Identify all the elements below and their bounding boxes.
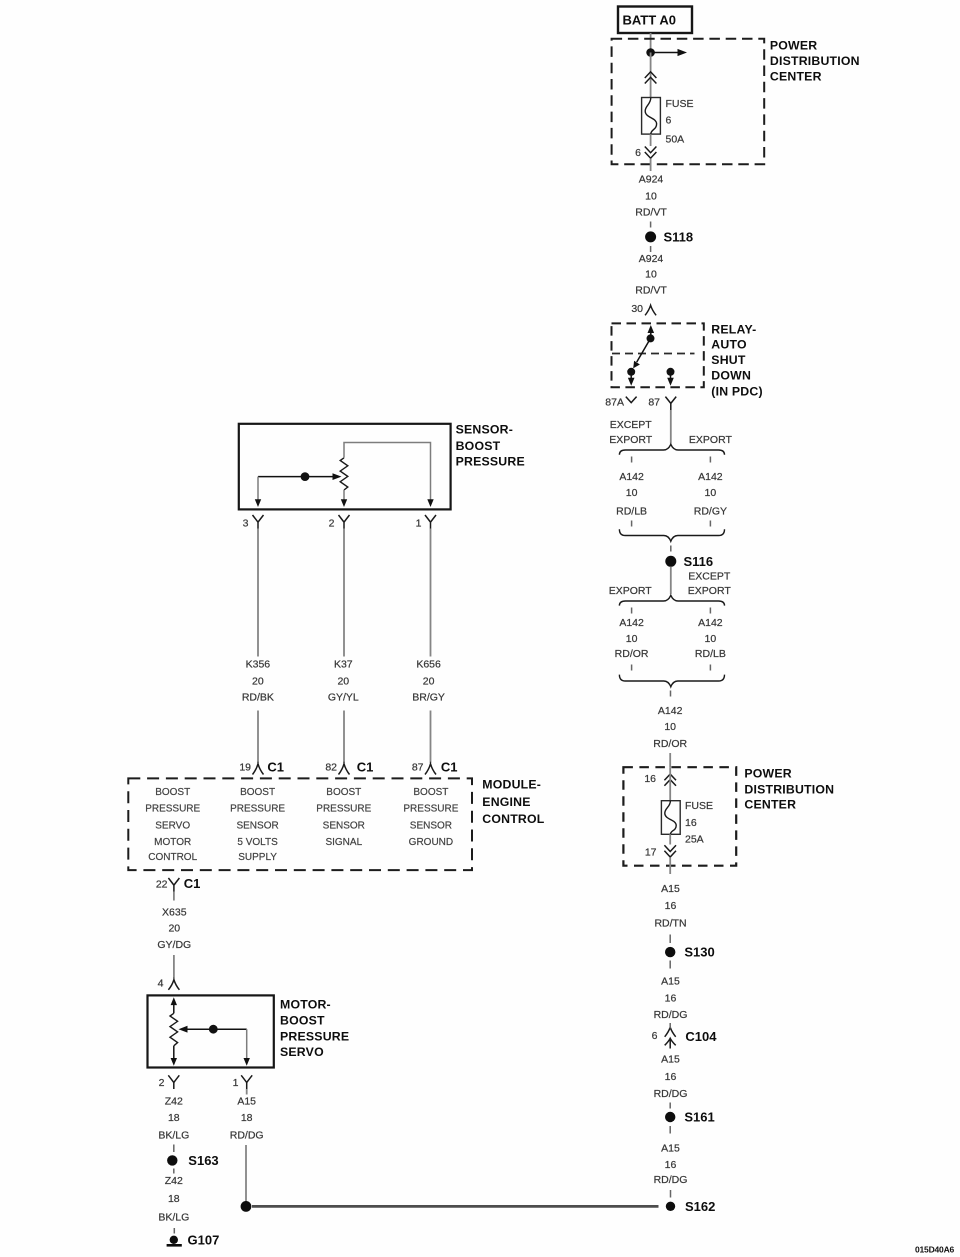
svg-text:2: 2	[329, 518, 335, 530]
pin 3 arrow inside box	[255, 499, 261, 507]
svg-text:BOOST: BOOST	[280, 1014, 325, 1028]
label SENSOR-BOOST PRESSURE	[456, 422, 525, 468]
connector at pin 30 (legs down)	[645, 305, 656, 315]
svg-text:SIGNAL: SIGNAL	[325, 837, 362, 848]
brace split 1 top	[619, 444, 724, 455]
motor boost pressure servo box	[148, 995, 274, 1067]
servo winding arrow down to pin 2	[171, 1046, 177, 1066]
svg-text:SERVO: SERVO	[280, 1045, 324, 1059]
svg-text:MOTOR-: MOTOR-	[280, 997, 331, 1011]
wire label A142 10 RD/OR (trunk)	[653, 705, 687, 750]
svg-text:A924: A924	[639, 253, 664, 265]
svg-text:4: 4	[158, 978, 164, 990]
wire label Z42 18 BK/LG (upper)	[158, 1096, 189, 1142]
net option label EXCEPT EXPORT (left, split 1)	[609, 419, 653, 446]
svg-text:Z42: Z42	[165, 1175, 183, 1187]
svg-text:BK/LG: BK/LG	[158, 1211, 189, 1223]
svg-text:A142: A142	[698, 471, 723, 483]
svg-text:1: 1	[233, 1077, 239, 1089]
wire label A15 16 RD/DG (above C104)	[654, 975, 688, 1021]
wire pin16 to fuse 16	[669, 767, 671, 801]
svg-text:K356: K356	[246, 658, 271, 670]
connector chevron (double, down)	[645, 147, 657, 159]
svg-text:FUSE: FUSE	[666, 98, 694, 110]
connector chevron (double, up)	[645, 72, 657, 84]
svg-text:A142: A142	[619, 471, 644, 483]
svg-text:RD/DG: RD/DG	[230, 1130, 264, 1142]
motor winding R (servo)	[170, 1013, 178, 1046]
svg-text:A15: A15	[661, 1143, 680, 1155]
svg-text:2: 2	[159, 1077, 165, 1089]
svg-text:PRESSURE: PRESSURE	[403, 804, 458, 815]
connector C1 at pin 87 (legs down)	[425, 764, 436, 775]
fuse value labels FUSE 16 25A	[685, 800, 713, 846]
svg-text:EXPORT: EXPORT	[688, 585, 732, 597]
potentiometer R (sensor)	[340, 458, 348, 490]
svg-text:RD/BK: RD/BK	[242, 692, 274, 704]
relay box (dashed)	[612, 323, 704, 387]
svg-text:EXCEPT: EXCEPT	[688, 571, 731, 583]
wire 87 down to split	[670, 410, 672, 444]
svg-text:50A: 50A	[666, 134, 685, 146]
svg-text:10: 10	[705, 487, 717, 499]
svg-text:3: 3	[243, 518, 249, 530]
connector chevron 17 (double, down)	[664, 845, 676, 857]
svg-text:C1: C1	[441, 759, 458, 774]
svg-text:G107: G107	[188, 1232, 220, 1247]
svg-text:18: 18	[168, 1112, 180, 1124]
label POWER DISTRIBUTION CENTER (bottom)	[744, 767, 834, 812]
module pin function: BOOST PRESSURE SERVO MOTOR CONTROL	[145, 787, 200, 863]
wire sensor pin 2 down	[343, 529, 345, 657]
svg-text:10: 10	[664, 721, 676, 733]
svg-text:16: 16	[665, 900, 677, 912]
wire label A15 16 RD/DG (below C104)	[654, 1054, 688, 1101]
wiper junction node	[301, 472, 310, 481]
brace merge 1 bottom	[619, 529, 724, 541]
label POWER DISTRIBUTION CENTER (top)	[770, 39, 860, 84]
connector at sensor pin 1 (Y)	[425, 515, 436, 529]
wire fuse16 out of box	[669, 834, 671, 844]
svg-text:S162: S162	[685, 1199, 715, 1214]
svg-text:SENSOR: SENSOR	[410, 821, 452, 832]
svg-text:87A: 87A	[605, 396, 624, 408]
svg-text:SHUT: SHUT	[711, 353, 746, 367]
svg-text:RD/TN: RD/TN	[654, 917, 686, 929]
svg-text:RD/DG: RD/DG	[654, 1088, 688, 1100]
svg-text:CONTROL: CONTROL	[482, 812, 544, 826]
svg-text:015D40A6: 015D40A6	[915, 1244, 955, 1254]
wire to module pin 87	[430, 711, 432, 764]
svg-text:CENTER: CENTER	[770, 70, 822, 84]
svg-text:16: 16	[665, 1159, 677, 1171]
svg-text:CENTER: CENTER	[744, 797, 796, 811]
servo winding arrow up to pin 4	[171, 997, 177, 1013]
wire label A15 18 RD/DG (servo pin 1)	[230, 1096, 264, 1142]
wire label K656 20 BR/GY	[412, 658, 445, 703]
fuse F6 body	[642, 98, 661, 135]
pin 2 arrow inside box	[341, 499, 347, 507]
wire stub right branch 2 top	[709, 608, 711, 614]
relay armature node 30	[647, 334, 655, 342]
arrow feed to other circuits	[651, 49, 687, 56]
svg-text:BR/GY: BR/GY	[412, 692, 445, 704]
svg-text:18: 18	[168, 1193, 180, 1205]
svg-text:16: 16	[685, 817, 697, 829]
svg-text:EXPORT: EXPORT	[609, 434, 653, 446]
wire stub above S118	[650, 222, 652, 228]
svg-text:S116: S116	[684, 554, 714, 569]
wire label A142 10 RD/LB (right branch 2)	[695, 617, 726, 660]
junction node in PDC	[646, 48, 655, 57]
wire stub below merge 2	[670, 691, 672, 697]
svg-text:MODULE-: MODULE-	[482, 778, 541, 792]
connector at servo pin 4 (legs down)	[168, 980, 179, 990]
wire label A142 10 RD/OR (left branch 2)	[615, 617, 649, 660]
svg-text:GY/YL: GY/YL	[328, 692, 359, 704]
wire stub left branch top	[631, 457, 633, 463]
label RELAY-AUTO SHUT DOWN (IN PDC)	[711, 323, 762, 399]
svg-text:BOOST: BOOST	[456, 439, 501, 453]
svg-text:30: 30	[631, 303, 643, 315]
svg-text:BATT A0: BATT A0	[623, 13, 676, 28]
fuse value labels FUSE 6 50A	[666, 98, 694, 146]
svg-text:RD/OR: RD/OR	[653, 738, 687, 750]
wire S162 to servo branch (horizontal)	[252, 1205, 659, 1208]
connector at servo pin 1 (Y)	[241, 1075, 252, 1089]
power distribution center box 1	[612, 39, 765, 164]
splice S130	[665, 945, 715, 960]
svg-text:BK/LG: BK/LG	[158, 1130, 189, 1142]
svg-text:DISTRIBUTION: DISTRIBUTION	[744, 783, 834, 797]
svg-text:6: 6	[652, 1030, 658, 1042]
relay 87 arrow down	[667, 372, 674, 386]
connector BATT A0	[618, 7, 692, 34]
wire junction to fuse 6	[650, 53, 652, 98]
relay contact node 87A	[627, 368, 635, 376]
svg-text:X635: X635	[162, 906, 187, 918]
svg-text:6: 6	[635, 147, 641, 159]
ground G107	[167, 1232, 220, 1247]
wire stub right branch bottom	[709, 521, 711, 527]
module pin function: BOOST PRESSURE SENSOR GROUND	[403, 787, 458, 848]
wire stub below S163	[173, 1169, 175, 1174]
module pin function: BOOST PRESSURE SENSOR 5 VOLTS SUPPLY	[230, 787, 285, 863]
svg-text:SENSOR: SENSOR	[323, 821, 365, 832]
wire to module pin 19	[257, 711, 259, 764]
connector C1 at pin 82 (legs down)	[339, 764, 350, 775]
svg-text:20: 20	[337, 675, 349, 687]
splice S161	[665, 1110, 715, 1125]
wire sensor pin 1 down	[430, 529, 432, 657]
svg-text:EXCEPT: EXCEPT	[610, 419, 653, 431]
svg-text:PRESSURE: PRESSURE	[280, 1030, 349, 1044]
connector at 87 (Y)	[665, 397, 676, 410]
connector at sensor pin 2 (Y)	[339, 515, 350, 529]
svg-text:RD/DG: RD/DG	[654, 1174, 688, 1186]
wire servo pin 1 down to junction	[245, 1145, 247, 1204]
wire wiper to pin 3	[257, 477, 259, 500]
module engine control box (dashed)	[128, 778, 472, 870]
svg-text:C1: C1	[357, 759, 374, 774]
svg-text:16: 16	[644, 773, 656, 785]
svg-text:POWER: POWER	[770, 39, 817, 53]
svg-text:A142: A142	[658, 705, 683, 717]
relay 87A arrow down	[628, 372, 635, 386]
svg-text:SENSOR-: SENSOR-	[456, 422, 513, 436]
wire stub below S130	[669, 961, 671, 969]
svg-text:18: 18	[241, 1112, 253, 1124]
svg-text:5 VOLTS: 5 VOLTS	[237, 837, 278, 848]
power distribution center box 2	[623, 767, 736, 866]
wire stub above S162	[670, 1190, 672, 1198]
svg-text:RD/GY: RD/GY	[694, 505, 727, 517]
svg-text:DOWN: DOWN	[711, 368, 751, 382]
svg-text:22: 22	[156, 879, 168, 891]
splice S162	[666, 1199, 716, 1214]
junction node to S162	[241, 1201, 252, 1212]
svg-text:SUPPLY: SUPPLY	[238, 852, 277, 863]
svg-text:EXPORT: EXPORT	[689, 434, 733, 446]
splice S118	[645, 229, 693, 244]
svg-text:20: 20	[252, 675, 264, 687]
relay pin 30 arrow up	[648, 325, 655, 338]
svg-text:PRESSURE: PRESSURE	[456, 455, 525, 469]
svg-text:SERVO: SERVO	[155, 821, 190, 832]
module pin function: BOOST PRESSURE SENSOR SIGNAL	[316, 787, 371, 848]
svg-text:Z42: Z42	[165, 1096, 183, 1108]
svg-text:CONTROL: CONTROL	[148, 852, 197, 863]
svg-text:(IN PDC): (IN PDC)	[711, 384, 762, 398]
svg-text:10: 10	[626, 633, 638, 645]
svg-text:16: 16	[665, 1071, 677, 1083]
svg-text:RD/VT: RD/VT	[635, 206, 667, 218]
svg-text:BOOST: BOOST	[326, 787, 361, 798]
svg-text:A15: A15	[237, 1096, 256, 1108]
wire to module pin 82	[343, 711, 345, 764]
connector at sensor pin 3 (Y)	[253, 515, 264, 529]
svg-text:17: 17	[645, 847, 657, 859]
fuse F16 body	[661, 801, 680, 835]
in-line connector C104	[665, 1027, 718, 1048]
svg-text:16: 16	[665, 993, 677, 1005]
svg-text:RELAY-: RELAY-	[711, 323, 756, 337]
svg-text:MOTOR: MOTOR	[154, 837, 191, 848]
svg-text:RD/VT: RD/VT	[635, 285, 667, 297]
servo pin 1 arrow inside box	[244, 1058, 250, 1066]
wire stub left branch bottom	[631, 521, 633, 527]
svg-text:A15: A15	[661, 883, 680, 895]
label MOTOR-BOOST PRESSURE SERVO	[280, 997, 349, 1059]
wire label K356 20 RD/BK	[242, 658, 274, 703]
relay armature to 87A	[633, 338, 650, 368]
svg-text:EXPORT: EXPORT	[609, 585, 653, 597]
svg-text:K37: K37	[334, 658, 353, 670]
connector chevron 16 (double, up)	[664, 774, 676, 786]
svg-text:10: 10	[626, 487, 638, 499]
svg-text:K656: K656	[416, 658, 441, 670]
svg-text:A924: A924	[639, 174, 664, 186]
svg-text:A15: A15	[661, 975, 680, 987]
splice S163	[167, 1153, 219, 1168]
wire stub above G107	[173, 1228, 175, 1234]
svg-text:ENGINE: ENGINE	[482, 795, 530, 809]
wire resistor bottom to pin 2	[343, 490, 345, 500]
svg-text:RD/DG: RD/DG	[654, 1009, 688, 1021]
brace split 2 top	[619, 595, 724, 605]
net option label EXCEPT EXPORT (right, split 2)	[688, 571, 732, 597]
svg-text:RD/OR: RD/OR	[615, 648, 649, 660]
svg-text:SENSOR: SENSOR	[236, 821, 278, 832]
wire BATT A0 to junction	[650, 33, 652, 49]
sensor boost pressure box	[239, 424, 451, 510]
wire stub above S116	[670, 546, 672, 552]
svg-text:19: 19	[239, 762, 251, 774]
wire label Z42 18 BK/LG (lower)	[158, 1175, 189, 1223]
wire stub left branch 2 bottom	[631, 665, 633, 671]
connector C1 at pin 22 (Y)	[168, 878, 179, 892]
wire sensor pin 3 down	[257, 529, 259, 657]
svg-text:87: 87	[412, 762, 424, 774]
servo wiper arrow (points left)	[179, 1026, 247, 1033]
svg-text:6: 6	[666, 115, 672, 127]
svg-text:AUTO: AUTO	[711, 338, 747, 352]
wire resistor top to pin 1	[344, 443, 431, 501]
svg-text:C1: C1	[184, 876, 201, 891]
wire into PDC 2	[669, 753, 671, 767]
wire stub above C104	[669, 1023, 671, 1029]
svg-text:PRESSURE: PRESSURE	[316, 804, 371, 815]
wire wiper to servo pin 1	[246, 1029, 248, 1059]
wire stub below S118	[650, 246, 652, 252]
svg-text:GY/DG: GY/DG	[157, 939, 191, 951]
label MODULE-ENGINE CONTROL	[482, 778, 544, 826]
svg-text:RD/LB: RD/LB	[695, 648, 726, 660]
svg-text:S130: S130	[684, 945, 714, 960]
svg-text:DISTRIBUTION: DISTRIBUTION	[770, 54, 860, 68]
svg-text:10: 10	[705, 633, 717, 645]
svg-text:A142: A142	[698, 617, 723, 629]
svg-text:A15: A15	[661, 1054, 680, 1066]
svg-text:BOOST: BOOST	[155, 787, 190, 798]
svg-text:S161: S161	[684, 1110, 714, 1125]
svg-text:PRESSURE: PRESSURE	[145, 804, 200, 815]
relay coil separator (inner dashed line)	[612, 353, 695, 355]
svg-text:10: 10	[645, 190, 657, 202]
wire label A924 10 RD/VT (upper)	[635, 174, 667, 219]
connector at 87A (unused, v)	[626, 397, 637, 403]
wire pin 22 down	[173, 892, 175, 901]
svg-text:POWER: POWER	[744, 767, 791, 781]
svg-text:BOOST: BOOST	[240, 787, 275, 798]
wire stub below servo pin 1	[246, 1089, 248, 1095]
wire label X635 20 GY/DG	[157, 906, 191, 951]
splice S116	[665, 554, 713, 569]
svg-text:87: 87	[648, 396, 660, 408]
brace merge 2 bottom	[619, 675, 724, 687]
svg-text:25A: 25A	[685, 833, 704, 845]
svg-text:GROUND: GROUND	[409, 837, 453, 848]
wire label A15 16 RD/DG (above S162)	[654, 1143, 688, 1187]
wiper arrow of sensor	[258, 473, 342, 480]
connector C1 at pin 19 (legs down)	[253, 764, 264, 775]
svg-text:S118: S118	[664, 229, 694, 244]
wire stub above S130	[669, 935, 671, 944]
wire fuse to A924	[650, 134, 652, 146]
svg-text:A142: A142	[619, 617, 644, 629]
wire stub above S163	[173, 1145, 175, 1153]
svg-text:20: 20	[168, 923, 180, 935]
servo wiper junction node	[209, 1025, 218, 1034]
svg-text:10: 10	[645, 269, 657, 281]
relay contact node 87	[667, 368, 675, 376]
wire stub below S161	[669, 1126, 671, 1134]
wire label A924 10 RD/VT (lower)	[635, 253, 667, 296]
wire label K37 20 GY/YL	[328, 658, 359, 703]
wire stub left branch 2 top	[631, 608, 633, 614]
wire stub above S161	[669, 1103, 671, 1109]
svg-text:1: 1	[416, 518, 422, 530]
connector at servo pin 2 (Y)	[168, 1075, 179, 1089]
pin 1 arrow inside box	[427, 499, 433, 507]
svg-text:BOOST: BOOST	[413, 787, 448, 798]
svg-text:RD/LB: RD/LB	[616, 505, 647, 517]
svg-text:C1: C1	[267, 759, 284, 774]
svg-text:82: 82	[325, 762, 337, 774]
wire label A142 10 RD/LB (left branch)	[616, 471, 647, 517]
wire stub right branch 2 bottom	[709, 665, 711, 671]
wire below S116	[670, 567, 672, 594]
svg-text:C104: C104	[685, 1029, 717, 1044]
wire to servo pin 4	[173, 955, 175, 979]
wire label A142 10 RD/GY (right branch)	[694, 471, 727, 517]
wire stub right branch top	[709, 457, 711, 463]
svg-text:S163: S163	[188, 1153, 218, 1168]
wire label A15 16 RD/TN	[654, 883, 686, 930]
svg-text:PRESSURE: PRESSURE	[230, 804, 285, 815]
svg-text:20: 20	[423, 675, 435, 687]
svg-text:FUSE: FUSE	[685, 800, 713, 812]
